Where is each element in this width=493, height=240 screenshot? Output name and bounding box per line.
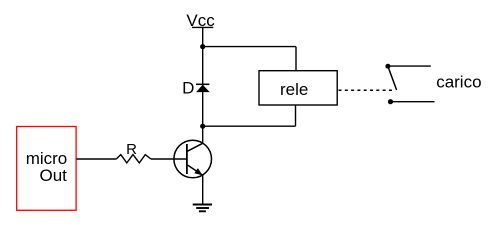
svg-text:carico: carico [436,72,481,91]
wire down into relay coil top [295,47,297,71]
svg-text:rele: rele [280,80,308,99]
wire collector node to relay bottom [203,125,296,127]
diode D cathode bar [196,83,209,85]
resistor R zigzag [116,155,151,163]
node junction collector [200,124,205,129]
transistor Q1 body circle [174,140,212,178]
wire resistor to base [151,158,187,160]
wire emitter to ground [202,175,204,204]
Vcc rail bar [192,26,213,28]
relay coil box "rele" [259,71,337,105]
node junction top (Vcc / relay branch) [200,44,205,49]
wire switch upper terminal [388,65,431,67]
ground symbol [193,205,212,212]
wire Vcc rail down through diode to collector [202,27,204,143]
micro controller box (red) [17,127,76,211]
transistor emitter arrow [194,168,202,175]
transistor collector diagonal [187,143,203,151]
svg-text:D: D [182,78,194,97]
svg-text:Out: Out [40,166,68,185]
wire relay coil bottom down [295,105,297,126]
wire micro out to resistor [76,158,116,160]
wire switch lower terminal [391,101,435,103]
switch lower contact [388,99,393,104]
switch upper contact [385,64,390,69]
svg-text:R: R [126,141,137,158]
switch lever [388,66,397,90]
wire top rail to relay [203,46,296,48]
transistor emitter diagonal [188,165,203,175]
transistor base bar [186,144,188,174]
dotted mechanical linkage relay to switch [339,89,394,91]
diode D triangle [196,85,210,93]
